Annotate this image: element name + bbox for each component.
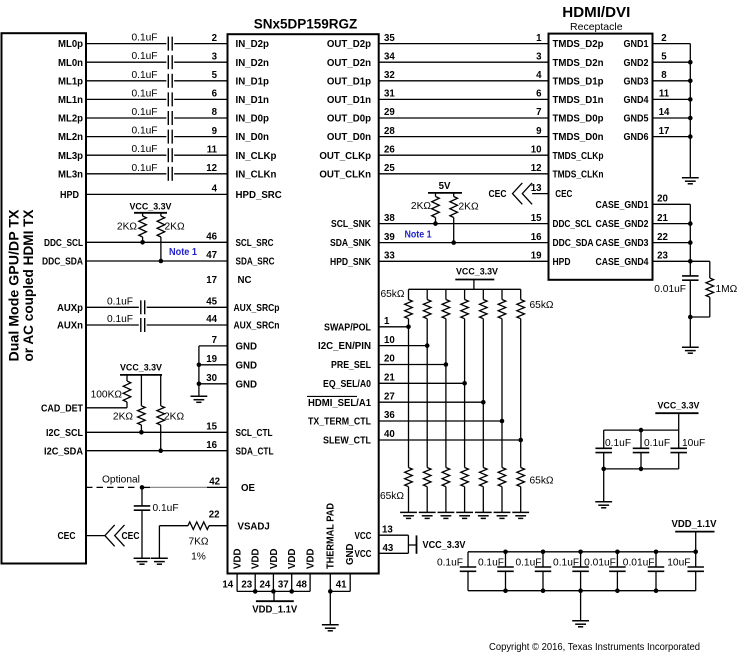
svg-text:OUT_CLKp: OUT_CLKp xyxy=(319,151,371,162)
wire ML1p from GPU to cap xyxy=(86,80,166,82)
pin stub VDD 1 xyxy=(236,574,238,592)
svg-text:14: 14 xyxy=(659,107,670,118)
svg-text:0.1uF: 0.1uF xyxy=(605,438,631,449)
svg-text:VDD: VDD xyxy=(269,549,280,569)
svg-text:CEC: CEC xyxy=(555,189,572,200)
wire DDC_SDA GPU to IC pin 47 xyxy=(86,260,228,262)
wire GND2 HDMI pin 5 xyxy=(653,61,691,63)
junction PRE_SEL xyxy=(444,362,449,367)
wire bus to C20 xyxy=(616,552,618,567)
svg-text:AUXp: AUXp xyxy=(57,303,83,314)
svg-text:PRE_SEL: PRE_SEL xyxy=(331,360,371,371)
overline for HDMI_SEL xyxy=(307,395,357,397)
ground (R19) xyxy=(456,512,473,518)
wire C11 to ground xyxy=(141,510,143,558)
wire bus to C16 xyxy=(467,552,469,567)
wire rail to R3 xyxy=(126,375,128,381)
svg-text:26: 26 xyxy=(384,144,395,155)
resistor R15 65k pullup (SLEW_CTL) xyxy=(517,300,525,319)
svg-text:SNx5DP159RGZ: SNx5DP159RGZ xyxy=(254,16,358,31)
junction R4/I2C_SCL xyxy=(139,430,144,435)
wire ML0p from GPU to cap xyxy=(86,43,166,45)
wire OUT_D0p IC to HDMI xyxy=(379,117,549,119)
junction CASE_GND4 bus xyxy=(688,259,693,264)
junction TX_TERM_CTL xyxy=(500,419,505,424)
svg-text:Note 1: Note 1 xyxy=(405,229,433,240)
junction bottom bus C14 xyxy=(639,467,644,472)
svg-text:ML1n: ML1n xyxy=(58,95,83,106)
svg-text:0.1uF: 0.1uF xyxy=(131,51,157,62)
svg-text:ML1p: ML1p xyxy=(58,76,83,87)
svg-text:11: 11 xyxy=(207,144,218,155)
svg-text:0.1uF: 0.1uF xyxy=(515,557,541,568)
svg-text:37: 37 xyxy=(278,579,289,590)
wire cap to IC pin 6 xyxy=(174,98,227,100)
HDMI/DVI receptacle J1 body xyxy=(549,34,653,280)
wire decoupling top bus xyxy=(604,429,679,431)
ground (R22) xyxy=(512,512,529,518)
wire CASE_GND4 to R23 xyxy=(690,260,710,262)
wire rail to R7 xyxy=(435,193,437,197)
svg-text:AUX_SRCn: AUX_SRCn xyxy=(234,321,280,332)
svg-text:1: 1 xyxy=(384,316,390,327)
svg-text:0.01uF: 0.01uF xyxy=(584,557,616,568)
wire OE dot stub xyxy=(142,486,150,488)
junction C12/R23 xyxy=(688,315,693,320)
svg-text:EQ_SEL/A0: EQ_SEL/A0 xyxy=(323,379,371,390)
svg-text:16: 16 xyxy=(531,232,542,243)
wire bus to R9 xyxy=(408,289,410,299)
svg-text:12: 12 xyxy=(531,163,542,174)
wire R7 to SCL_SNK xyxy=(435,218,437,224)
svg-text:GND4: GND4 xyxy=(624,95,650,106)
wire SWAP/POL down to R16 xyxy=(408,327,410,468)
wire cap bank top bus xyxy=(468,551,696,553)
svg-text:17: 17 xyxy=(659,126,670,137)
svg-text:Copyright © 2016, Texas Instru: Copyright © 2016, Texas Instruments Inco… xyxy=(489,642,700,653)
junction cap bank bottom bus xyxy=(654,588,659,593)
wire I2C_EN/PIN IC pin 10 xyxy=(379,345,428,347)
wire cap to IC pin 2 xyxy=(174,43,227,45)
capacitor C21 0.01uF VDD bulk xyxy=(648,566,665,568)
wire OE to IC pin 42 xyxy=(207,486,228,488)
svg-text:2: 2 xyxy=(661,33,666,44)
wire R23 top lead xyxy=(709,261,711,278)
svg-text:100KΩ: 100KΩ xyxy=(91,390,123,401)
junction top bus C14 xyxy=(639,428,644,433)
wire CASE_GND3 HDMI pin 22 xyxy=(653,242,691,244)
svg-text:OE: OE xyxy=(241,483,256,494)
svg-text:30: 30 xyxy=(206,373,217,384)
svg-text:GND1: GND1 xyxy=(624,39,650,50)
wire SCL_SNK IC pin 38 to HDMI pin 15 xyxy=(379,223,549,225)
wire rail to R5 xyxy=(160,375,162,406)
svg-text:42: 42 xyxy=(209,476,220,487)
power rail VCC_3.3V bar xyxy=(455,279,494,281)
pin stub VDD 3 xyxy=(272,574,274,592)
wire ML0n from GPU to cap xyxy=(86,61,166,63)
svg-text:0.1uF: 0.1uF xyxy=(553,557,579,568)
svg-text:OUT_D1n: OUT_D1n xyxy=(327,95,371,106)
svg-text:0.1uF: 0.1uF xyxy=(131,33,157,44)
svg-text:DDC_SCL: DDC_SCL xyxy=(44,238,83,249)
wire bus to R12 xyxy=(464,289,466,299)
svg-text:65kΩ: 65kΩ xyxy=(530,300,554,311)
svg-text:3: 3 xyxy=(536,51,542,62)
junction cap bank top bus xyxy=(541,550,546,555)
svg-text:GND6: GND6 xyxy=(624,132,650,143)
capacitor C22 10uF VDD bulk xyxy=(687,566,704,568)
svg-text:0.01uF: 0.01uF xyxy=(623,557,655,568)
svg-text:3: 3 xyxy=(212,51,218,62)
svg-text:GND: GND xyxy=(236,379,258,390)
wire R19 to ground xyxy=(464,487,466,513)
wire R10 to I2C_EN/PIN net xyxy=(426,319,428,346)
wire ML2p from GPU to cap xyxy=(86,117,166,119)
pin stub THERMAL PAD xyxy=(329,574,331,592)
svg-text:48: 48 xyxy=(296,579,307,590)
svg-text:SCL_CTL: SCL_CTL xyxy=(236,428,273,439)
svg-text:45: 45 xyxy=(206,297,217,308)
svg-text:1: 1 xyxy=(536,33,542,44)
resistor R1 2K SCL_SRC pullup xyxy=(139,216,147,237)
svg-text:IN_CLKp: IN_CLKp xyxy=(236,151,277,162)
wire R21 to ground xyxy=(501,487,503,513)
capacitor C1 0.1uF ML0p AC coupling xyxy=(167,37,169,51)
wire CASE_GND1 HDMI pin 20 xyxy=(653,203,691,205)
wire HPD GPU to IC pin 4 xyxy=(86,193,228,195)
wire VDD bus to rail xyxy=(273,591,275,601)
ground (VCC decoupling) xyxy=(595,502,612,508)
wire OUT_CLKn IC to HDMI xyxy=(379,173,549,175)
svg-text:DDC_SCL: DDC_SCL xyxy=(553,219,592,230)
off-page connector CEC (right) chevron 1 xyxy=(513,183,523,204)
svg-text:7: 7 xyxy=(212,335,217,346)
svg-text:SDA_SRC: SDA_SRC xyxy=(236,257,275,268)
resistor R10 65k pullup (I2C_EN/PIN) xyxy=(423,300,431,319)
wire R4 to I2C_SCL xyxy=(140,425,142,432)
svg-text:47: 47 xyxy=(206,250,217,261)
svg-text:0.01uF: 0.01uF xyxy=(654,284,686,295)
off-page connector CEC (left) chevron 2 xyxy=(115,525,125,546)
svg-text:2: 2 xyxy=(212,33,217,44)
capacitor C11 0.1uF OE filter xyxy=(134,505,151,507)
power rail VDD_1.1V bar (IC bottom) xyxy=(256,600,294,602)
wire PRE_SEL down to R18 xyxy=(445,365,447,468)
svg-text:0.1uF: 0.1uF xyxy=(131,88,157,99)
svg-text:2KΩ: 2KΩ xyxy=(164,412,184,423)
svg-text:IN_D0p: IN_D0p xyxy=(236,114,269,125)
svg-text:HPD_SNK: HPD_SNK xyxy=(330,257,371,268)
wire HDMI_SEL/A1 down to R20 xyxy=(482,402,484,467)
wire bus to R10 xyxy=(426,289,428,299)
wire GND3 HDMI pin 8 xyxy=(653,80,691,82)
junction GND4 bus xyxy=(688,97,693,102)
wire rail to R4 xyxy=(140,375,142,406)
svg-text:VDD_1.1V: VDD_1.1V xyxy=(252,605,298,616)
wire AUXp from GPU to cap xyxy=(86,306,139,308)
svg-text:15: 15 xyxy=(531,213,542,224)
wire OUT_D0n IC to HDMI xyxy=(379,136,549,138)
wire rail drop to bus xyxy=(695,532,697,552)
wire GND pin 30 xyxy=(199,383,228,385)
capacitor C10 0.1uF AUXn coupling xyxy=(140,318,142,332)
svg-text:CEC: CEC xyxy=(122,531,140,542)
wire CASE_GND2 HDMI pin 21 xyxy=(653,223,691,225)
capacitor C19 0.1uF VDD bulk xyxy=(572,566,589,568)
svg-text:2KΩ: 2KΩ xyxy=(117,222,137,233)
svg-text:SCL_SNK: SCL_SNK xyxy=(331,219,371,230)
wire rail to R1 xyxy=(142,213,144,216)
wire rail drop xyxy=(678,413,680,430)
wire rail to R2 xyxy=(160,213,162,216)
wire cap bank to ground xyxy=(580,591,582,621)
capacitor C2 0.1uF ML0n AC coupling xyxy=(167,55,169,69)
wire VSADJ ground drop xyxy=(158,526,160,559)
svg-text:OUT_D2n: OUT_D2n xyxy=(327,58,371,69)
wire R18 to ground xyxy=(445,487,447,513)
wire cap to IC pin 5 xyxy=(174,80,227,82)
svg-text:10: 10 xyxy=(384,335,395,346)
junction cap bank top bus xyxy=(578,550,583,555)
wire SWAP/POL IC pin 1 xyxy=(379,326,409,328)
power rail 5V bar xyxy=(428,192,462,194)
svg-text:THERMAL PAD: THERMAL PAD xyxy=(326,503,337,569)
svg-text:VDD: VDD xyxy=(306,549,317,569)
junction cap bank top bus xyxy=(654,550,659,555)
wire OUT_D1p IC to HDMI xyxy=(379,80,549,82)
wire C12 to ground xyxy=(689,280,691,347)
svg-text:TMDS_D0p: TMDS_D0p xyxy=(553,114,604,125)
svg-text:SDA_SNK: SDA_SNK xyxy=(330,238,371,249)
ground (R18) xyxy=(438,512,455,518)
svg-text:1MΩ: 1MΩ xyxy=(716,284,738,295)
wire GND pin 19 xyxy=(199,364,228,366)
svg-text:CASE_GND3: CASE_GND3 xyxy=(596,238,650,249)
capacitor C4 0.1uF ML1n AC coupling xyxy=(167,92,169,106)
svg-text:GND2: GND2 xyxy=(624,58,649,69)
svg-text:38: 38 xyxy=(384,213,395,224)
wire R2 to SDA_SRC net xyxy=(160,237,162,261)
svg-text:DDC_SDA: DDC_SDA xyxy=(42,257,83,268)
svg-text:SWAP/POL: SWAP/POL xyxy=(324,322,371,333)
svg-text:TMDS_D1n: TMDS_D1n xyxy=(553,95,604,106)
wire CASE_GND vertical bus xyxy=(689,204,691,276)
svg-text:20: 20 xyxy=(384,354,395,365)
wire TX_TERM_CTL down to R21 xyxy=(501,421,503,468)
svg-text:ML0p: ML0p xyxy=(58,39,83,50)
wire C21 to bottom bus xyxy=(655,571,657,590)
wire C19 to bottom bus xyxy=(580,571,582,590)
svg-text:ML2n: ML2n xyxy=(58,132,83,143)
ground (IC GND pins) xyxy=(191,396,208,402)
wire bus to C17 xyxy=(505,552,507,567)
wire OUT_CLKp IC to HDMI xyxy=(379,154,549,156)
capacitor C8 0.1uF ML3n AC coupling xyxy=(167,167,169,181)
junction VDD bus 4 xyxy=(289,589,294,594)
svg-text:65kΩ: 65kΩ xyxy=(380,289,404,300)
wire bus to C15 xyxy=(678,430,680,448)
svg-text:VCC_3.3V: VCC_3.3V xyxy=(423,540,466,551)
svg-text:CASE_GND1: CASE_GND1 xyxy=(596,200,650,211)
svg-text:OUT_CLKn: OUT_CLKn xyxy=(319,169,371,180)
svg-text:23: 23 xyxy=(657,251,668,262)
junction cap bank bottom bus xyxy=(615,588,620,593)
capacitor C13 0.1uF VCC decoupling xyxy=(595,447,612,449)
svg-text:NC: NC xyxy=(238,275,252,286)
wire EQ_SEL/A0 down to R19 xyxy=(464,383,466,467)
wire OE down to C11 xyxy=(141,487,143,506)
wire R1 to SCL_SRC net xyxy=(142,237,144,242)
junction I2C_EN/PIN xyxy=(425,343,430,348)
svg-text:VCC_3.3V: VCC_3.3V xyxy=(456,266,499,276)
wire SDA_SNK IC pin 39 to HDMI pin 16 xyxy=(379,242,549,244)
svg-text:IN_D0n: IN_D0n xyxy=(236,132,269,143)
wire CEC from GPU xyxy=(86,535,105,537)
wire R20 to ground xyxy=(482,487,484,513)
svg-text:OUT_D2p: OUT_D2p xyxy=(327,39,371,50)
junction R2/SDA_SRC xyxy=(159,259,164,264)
wire R5 to I2C_SDA xyxy=(160,425,162,451)
svg-text:15: 15 xyxy=(206,422,217,433)
wire thermal bus xyxy=(330,590,350,592)
svg-text:20: 20 xyxy=(657,194,668,205)
svg-text:0.1uF: 0.1uF xyxy=(644,438,670,449)
ground (cap bank) xyxy=(572,621,589,627)
ground (case ground) xyxy=(682,347,699,353)
wire C15 to bottom bus xyxy=(678,453,680,469)
svg-text:ML2p: ML2p xyxy=(58,114,83,125)
svg-text:CAD_DET: CAD_DET xyxy=(41,403,83,414)
svg-text:0.1uF: 0.1uF xyxy=(131,70,157,81)
svg-text:8: 8 xyxy=(212,107,218,118)
ground (HDMI GND bus) xyxy=(682,178,699,184)
junction VDD bus 2 xyxy=(253,589,258,594)
svg-text:CASE_GND2: CASE_GND2 xyxy=(596,219,649,230)
wire C17 to bottom bus xyxy=(505,571,507,590)
pin stub VDD 4 xyxy=(291,574,293,592)
svg-text:65kΩ: 65kΩ xyxy=(530,476,554,487)
svg-text:HPD: HPD xyxy=(553,257,571,268)
wire bus to R14 xyxy=(501,289,503,299)
svg-text:10: 10 xyxy=(531,144,542,155)
wire VDD bottom bus xyxy=(237,590,310,592)
resistor R18 65k pulldown (PRE_SEL) xyxy=(442,468,450,487)
ground (R17) xyxy=(419,512,436,518)
resistor R16 65k pulldown (SWAP/POL) xyxy=(405,468,413,487)
wire GND1 HDMI pin 2 xyxy=(653,43,691,45)
wire R17 to ground xyxy=(426,487,428,513)
junction bottom bus C13 xyxy=(601,467,606,472)
wire bottom bus to ground xyxy=(603,469,605,502)
wire GND6 HDMI pin 17 xyxy=(653,136,691,138)
wire OUT_D1n IC to HDMI xyxy=(379,98,549,100)
junction R8/SDA_SNK xyxy=(451,240,456,245)
svg-text:I2C_SCL: I2C_SCL xyxy=(46,428,83,439)
wire R12 to EQ_SEL/A0 net xyxy=(464,319,466,384)
junction cap bank top bus xyxy=(615,550,620,555)
wire R23 to bus xyxy=(690,316,710,318)
resistor R20 65k pulldown (HDMI_SEL/A1) xyxy=(479,468,487,487)
svg-text:19: 19 xyxy=(531,251,542,262)
wire cap to IC pin 8 xyxy=(174,117,227,119)
wire GND vertical bus xyxy=(198,346,200,396)
wire bus to R15 xyxy=(520,289,522,299)
wire cap to IC pin 45 xyxy=(147,306,228,308)
svg-text:CEC: CEC xyxy=(58,531,76,542)
svg-text:0.1uF: 0.1uF xyxy=(478,557,504,568)
ground (R20) xyxy=(475,512,492,518)
pin stub VDD 5 xyxy=(309,574,311,592)
wire bus to C22 xyxy=(695,552,697,567)
svg-text:17: 17 xyxy=(206,275,217,286)
svg-text:39: 39 xyxy=(384,232,395,243)
resistor R17 65k pulldown (I2C_EN/PIN) xyxy=(423,468,431,487)
ground (C11) xyxy=(134,558,151,564)
wire AUXn from GPU to cap xyxy=(86,324,139,326)
capacitor C6 0.1uF ML2n AC coupling xyxy=(167,130,169,144)
svg-text:46: 46 xyxy=(206,232,217,243)
wire C13 to bottom bus xyxy=(603,453,605,469)
wire 65k pullup top bus xyxy=(409,288,521,290)
svg-text:Optional: Optional xyxy=(102,475,140,486)
junction cap bank bottom bus xyxy=(503,588,508,593)
wire bus to C13 xyxy=(603,430,605,448)
svg-text:34: 34 xyxy=(384,51,395,62)
wire OE gray segment xyxy=(150,486,207,488)
wire TX_TERM_CTL IC pin 36 xyxy=(379,420,502,422)
svg-text:7KΩ: 7KΩ xyxy=(188,537,208,548)
wire VSADJ IC pin 22 to R6 xyxy=(209,525,228,527)
wire C18 to bottom bus xyxy=(542,571,544,590)
junction cap bank bottom bus xyxy=(541,588,546,593)
resistor R6 7K VSADJ xyxy=(188,522,209,530)
capacitor C15 10uF VCC decoupling xyxy=(670,447,687,449)
svg-text:0.1uF: 0.1uF xyxy=(131,144,157,155)
svg-text:GND: GND xyxy=(236,360,258,371)
svg-text:VCC: VCC xyxy=(355,531,372,542)
resistor R11 65k pullup (PRE_SEL) xyxy=(442,300,450,319)
resistor R14 65k pullup (TX_TERM_CTL) xyxy=(498,300,506,319)
svg-text:0.1uF: 0.1uF xyxy=(107,314,133,325)
svg-text:0.1uF: 0.1uF xyxy=(153,503,179,514)
capacitor C16 0.1uF VDD bulk xyxy=(460,566,477,568)
resistor R4 2K I2C_SCL pullup xyxy=(138,406,146,425)
resistor R13 65k pullup (HDMI_SEL/A1) xyxy=(479,300,487,319)
svg-text:SDA_CTL: SDA_CTL xyxy=(236,446,274,457)
svg-text:VCC: VCC xyxy=(355,549,372,560)
svg-text:HPD: HPD xyxy=(60,190,79,201)
svg-text:AUX_SRCp: AUX_SRCp xyxy=(234,303,280,314)
junction cap bank bottom bus xyxy=(578,588,583,593)
junction GND3 bus xyxy=(688,79,693,84)
wire C16 to bottom bus xyxy=(467,571,469,590)
svg-text:IN_D2n: IN_D2n xyxy=(236,58,269,69)
off-page connector CEC (right) chevron 2 xyxy=(522,183,532,204)
svg-text:VDD: VDD xyxy=(251,549,262,569)
wire decoupling bottom bus xyxy=(604,468,679,470)
wire VCC pins join xyxy=(407,535,409,553)
svg-text:I2C_EN/PIN: I2C_EN/PIN xyxy=(318,341,371,352)
wire R8 to SDA_SNK xyxy=(453,218,455,243)
power rail VCC_3.3V bar xyxy=(655,412,698,414)
power tap VCC_3.3V tick xyxy=(416,535,418,553)
svg-text:VSADJ: VSADJ xyxy=(238,521,270,532)
svg-text:13: 13 xyxy=(382,524,393,535)
junction HDMI_SEL/A1 xyxy=(481,400,486,405)
wire ML2n from GPU to cap xyxy=(86,136,166,138)
resistor R9 65k pullup (SWAP/POL) xyxy=(405,300,413,319)
